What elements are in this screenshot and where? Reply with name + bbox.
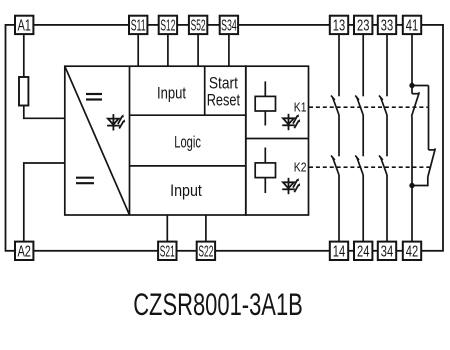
terminal S12 [159, 16, 177, 35]
svg-text:Input: Input [170, 181, 202, 200]
terminal S52 [189, 16, 207, 35]
svg-text:S12: S12 [160, 18, 175, 35]
terminal 41 [403, 16, 421, 35]
contact column 13-14 [331, 34, 339, 242]
svg-text:13: 13 [333, 18, 345, 35]
svg-text:K1: K1 [294, 99, 307, 114]
relay K1 coil wire [264, 81, 266, 125]
terminal A1 [15, 16, 33, 35]
svg-text:S52: S52 [191, 18, 206, 35]
terminal 24 [354, 242, 372, 261]
svg-text:23: 23 [357, 18, 369, 35]
Input / StartReset divider (horizontal) [130, 114, 246, 116]
svg-text:S11: S11 [131, 18, 146, 35]
wire 33 down [386, 34, 388, 96]
svg-text:K2: K2 [294, 159, 307, 174]
left branch upper wire [411, 86, 413, 94]
K2 contact tick [355, 156, 359, 161]
K2 LED indicator [282, 178, 300, 194]
wire 41 down [411, 34, 413, 86]
terminal A2 [15, 242, 33, 261]
K1 contact tick [355, 96, 359, 101]
terminal 42 [403, 242, 421, 261]
Input / StartReset divider (vertical) [204, 66, 206, 115]
svg-text:S22: S22 [198, 243, 213, 260]
wire between contacts [386, 115, 388, 156]
K2 linkage dashed line [309, 166, 431, 168]
svg-text:33: 33 [381, 18, 393, 35]
wire between contacts [338, 115, 340, 156]
terminal S34 [220, 16, 238, 35]
wire to right branch [412, 85, 429, 87]
wire between contacts [362, 115, 364, 156]
svg-text:A1: A1 [17, 18, 31, 35]
power supply section divider [129, 66, 131, 215]
terminal S22 [197, 242, 215, 261]
right branch upper wire [428, 86, 430, 150]
wire A1 to fuse [23, 34, 25, 79]
K2 NC contact blade [428, 148, 436, 177]
K2 contact blade [333, 157, 340, 175]
K2 contact blade [357, 157, 364, 175]
terminal S21 [158, 242, 176, 261]
terminal 23 [354, 16, 372, 35]
K1 contact tick [331, 96, 335, 101]
junction node top [409, 83, 414, 88]
K1 NC contact blade [412, 92, 420, 116]
left branch lower wire [411, 117, 413, 186]
wire A2 to power supply [24, 163, 65, 242]
wire 23 down [362, 34, 364, 96]
svg-text:41: 41 [406, 18, 418, 35]
terminal 13 [330, 16, 348, 35]
svg-text:A2: A2 [17, 243, 31, 260]
power supply diagonal [65, 66, 130, 215]
wire to 14 [338, 175, 340, 242]
K1 linkage dashed line [309, 106, 428, 108]
svg-text:Input: Input [157, 84, 186, 103]
relay K2 coil [255, 163, 275, 178]
K2 contact blade [381, 157, 388, 175]
K1 contact blade [333, 97, 340, 115]
svg-text:S34: S34 [221, 18, 237, 35]
K1 LED indicator [282, 114, 300, 130]
wire to 42 [411, 186, 413, 243]
fuse F1 [19, 77, 28, 106]
terminal 14 [330, 242, 348, 261]
enclosure border [6, 25, 444, 251]
wire fuse to power supply input [24, 104, 65, 118]
K1 contact blade [381, 97, 388, 115]
DC symbol top [86, 94, 102, 100]
wire to 24 [362, 175, 364, 242]
wire S12 to input [167, 34, 169, 66]
terminal 34 [378, 242, 396, 261]
relay box K1 K2 [246, 66, 309, 215]
Logic bottom divider [130, 165, 246, 167]
K2 contact tick [331, 156, 335, 161]
svg-text:S21: S21 [160, 243, 175, 260]
svg-text:Logic: Logic [174, 132, 201, 151]
DC symbol bottom [76, 178, 94, 184]
wire S52 to input [197, 34, 199, 66]
K1 NC contact bar [412, 93, 419, 95]
svg-text:CZSR8001-3A1B: CZSR8001-3A1B [133, 287, 303, 322]
terminal S11 [129, 16, 147, 35]
terminal 33 [378, 16, 396, 35]
wire S21 to block [166, 215, 168, 242]
wire S11 to input [137, 34, 139, 66]
K2 contact tick [379, 156, 383, 161]
svg-text:24: 24 [357, 243, 370, 260]
K2 NC contact bar [429, 149, 436, 151]
wire S34 to start reset [228, 34, 230, 66]
K1 contact blade [357, 97, 364, 115]
relay box divider [246, 138, 309, 140]
svg-text:Reset: Reset [207, 90, 241, 109]
relay K1 coil [255, 96, 275, 111]
contact column 33-34 [379, 34, 387, 242]
junction node bottom [409, 183, 414, 188]
contact column 23-24 [355, 34, 363, 242]
wire S22 to block [205, 215, 207, 242]
main device block outline [65, 66, 246, 215]
K1 contact tick [379, 96, 383, 101]
NC contact chain 41-42 [412, 34, 436, 242]
svg-text:14: 14 [333, 243, 346, 260]
relay K2 coil wire [264, 148, 266, 194]
LED indicator power section [107, 114, 125, 130]
right branch lower wire [412, 177, 428, 186]
wire 13 down [338, 34, 340, 96]
wire to 34 [386, 175, 388, 242]
svg-text:34: 34 [381, 243, 394, 260]
svg-text:42: 42 [406, 243, 418, 260]
